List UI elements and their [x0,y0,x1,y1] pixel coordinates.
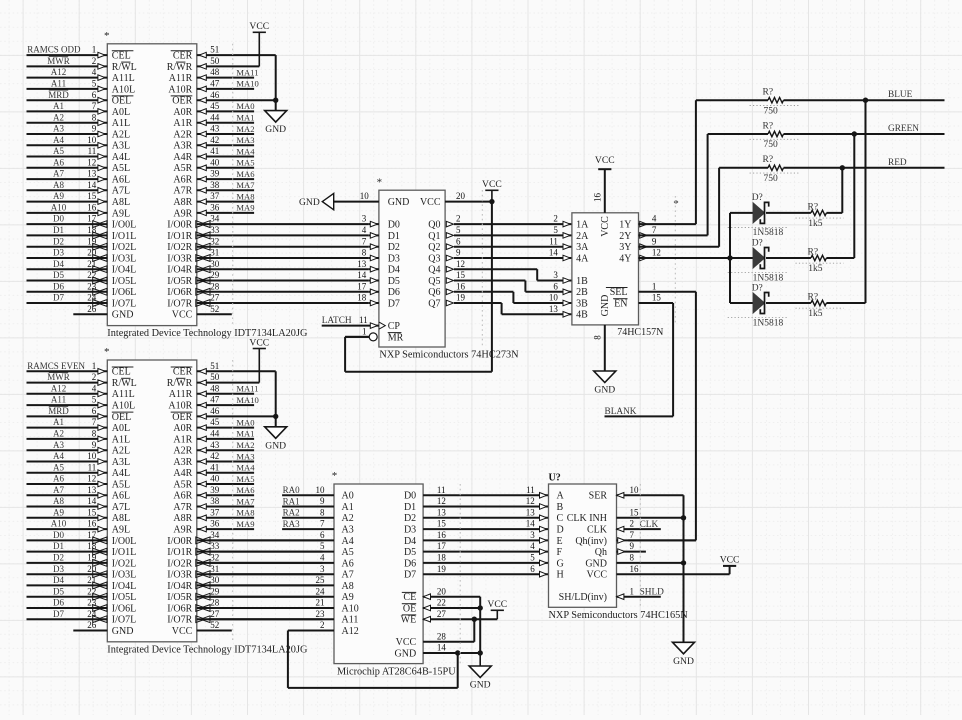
svg-text:I/O3R: I/O3R [167,253,192,264]
U-RAM1 pin 19 I/O2L / wire net D2 [27,236,137,253]
U-RAM2 pin 11 A4L / wire net A5 [27,462,131,479]
U-RAM2 ground symbol [265,427,287,452]
svg-text:*: * [332,470,338,482]
svg-text:26: 26 [87,304,97,314]
svg-text:16: 16 [593,193,603,203]
svg-text:D6: D6 [53,598,64,608]
svg-text:A8: A8 [53,496,64,506]
wire A12 to ground net [288,631,458,688]
svg-text:A8: A8 [342,581,354,592]
svg-text:A1: A1 [53,417,64,427]
U-RAM1 pin 47 A10R wire [168,79,254,96]
net label D6 [53,598,64,608]
svg-text:I/O1R: I/O1R [167,231,192,242]
svg-text:50: 50 [210,372,220,382]
U-RAM2 pin 24 I/O7L / wire net D7 [27,609,137,626]
net label D7 [53,293,64,303]
svg-text:A9R: A9R [173,525,192,536]
U-RAM1 pin 11 A4L / wire net A5 [27,146,131,163]
svg-text:28: 28 [210,598,220,608]
svg-text:VCC: VCC [600,216,611,237]
svg-text:GND: GND [395,648,417,659]
svg-text:MWR: MWR [47,56,70,66]
svg-text:A10L: A10L [112,84,135,95]
svg-text:*: * [377,177,383,189]
svg-text:I/O3L: I/O3L [112,570,136,581]
svg-text:MA11: MA11 [236,67,258,77]
74HC157N pin 4 1Y label [619,214,657,231]
U-RAM1 pin 18 I/O1L / wire net D1 [27,225,137,242]
svg-text:A11: A11 [51,79,66,89]
svg-text:I/O1L: I/O1L [112,547,136,558]
svg-text:14: 14 [437,643,447,653]
74HC157N pin 2 1A [553,214,589,231]
svg-text:D2: D2 [404,513,416,524]
U-RAM2 pin 41 A4R wire [173,462,254,479]
U-RAM2 pin 27 I/O7R wire [167,609,322,626]
U-RAM1 pin 23 I/O6L / wire net D6 [27,281,137,298]
svg-text:17: 17 [87,530,97,540]
net label MA0 [236,417,254,427]
svg-text:14: 14 [87,180,97,190]
74HC157N pin 16 VCC stem and symbol [593,155,615,213]
svg-text:11: 11 [88,146,97,156]
svg-text:F: F [557,547,563,558]
svg-text:D4: D4 [53,575,64,585]
U-RAM2 pin 39 A6R wire [173,485,254,502]
wire 74HC157N 2Y to GREEN [639,134,708,235]
svg-text:D0: D0 [404,491,416,502]
svg-text:A2R: A2R [173,446,192,457]
svg-text:Q1: Q1 [428,231,440,242]
junction WE/VCC net [472,617,477,622]
svg-text:D3: D3 [404,525,416,536]
U-RAM2 pin 6 OEL / wire net MRD [27,406,134,423]
svg-text:A10R: A10R [168,401,192,412]
U-RAM1 pin 41 A4R wire [173,146,254,163]
svg-text:39: 39 [210,169,220,179]
svg-text:34: 34 [210,530,220,540]
AT28C64B pin 7 A3 wire [282,519,354,536]
U-RAM1 pin 32 I/O2R wire [167,236,368,253]
net label MRD [48,406,69,416]
svg-text:A0R: A0R [173,423,192,434]
svg-text:RAMCS ODD: RAMCS ODD [27,45,81,55]
U-RAM2 pin 43 A2R wire [173,440,254,457]
svg-text:I/O0L: I/O0L [112,220,136,231]
svg-text:A1L: A1L [112,118,130,129]
diode D? 1N5818 #3 [728,283,787,328]
74HC165N pin 15 CLK INH label [567,507,639,524]
svg-text:11: 11 [437,485,446,495]
74HC157N pin 15 EN label [613,293,661,310]
svg-text:NXP Semiconductors 74HC165N: NXP Semiconductors 74HC165N [549,610,689,621]
svg-text:4A: 4A [576,253,589,264]
U-RAM2 pin 14 A7L / wire net A8 [27,496,131,513]
svg-text:*: * [673,198,679,210]
svg-text:I/O7L: I/O7L [112,615,136,626]
svg-text:5: 5 [320,541,325,551]
svg-text:A6: A6 [53,157,64,167]
svg-text:9: 9 [652,236,657,246]
svg-text:A11L: A11L [112,73,135,84]
net label MRD [48,90,69,100]
svg-text:A3: A3 [342,525,354,536]
svg-text:D0: D0 [53,214,64,224]
74HC273N pin 16 Q6 wire to 74HC157N [428,281,572,303]
U-RAM2 pin 17 I/O0L / wire net D0 [27,530,137,547]
svg-text:15: 15 [652,293,662,303]
74HC273N pin 1 MR wire with bubble [345,327,403,344]
net label A8 [53,496,64,506]
U-RAM2 pin 20 I/O3L / wire net D3 [27,564,137,581]
svg-text:I/O4L: I/O4L [112,265,136,276]
svg-text:17: 17 [87,214,97,224]
svg-text:10: 10 [549,293,559,303]
net label BLANK [605,407,637,417]
dotted reference column at 74HC273N [481,190,483,348]
svg-text:13: 13 [87,169,97,179]
svg-text:U?: U? [549,472,561,483]
wire RAM1 I/O0R to 74HC273N D0 [362,214,400,231]
svg-text:I/O1L: I/O1L [112,231,136,242]
svg-text:I/O2R: I/O2R [167,558,192,569]
net label MA2 [236,124,254,134]
svg-text:2B: 2B [576,287,588,298]
svg-text:SHLD: SHLD [640,588,665,598]
U-RAM2 pin 18 I/O1L / wire net D1 [27,541,137,558]
svg-text:MA7: MA7 [236,180,255,190]
U-RAM2 pin 50 R/WR wire [167,372,260,389]
svg-text:Q0: Q0 [428,220,440,231]
svg-text:MA9: MA9 [236,203,254,213]
svg-text:WE: WE [401,615,417,626]
wire diode anode bus vertical [729,213,731,303]
svg-text:6: 6 [92,90,97,100]
wire 74HC157N 4Y to diode network [639,257,731,259]
AT28C64B pin 9 A1 wire [282,496,354,513]
net label MA6 [236,485,255,495]
svg-text:24: 24 [87,609,97,619]
svg-text:2: 2 [92,372,97,382]
net label MA9 [236,203,254,213]
U-RAM2 pin 29 I/O5R wire [167,586,322,603]
U-RAM2 pin 33 I/O1R wire [167,541,322,558]
74HC273N pin 5 Q1 wire to 74HC157N [428,225,572,242]
net label MA10 [236,79,258,89]
svg-text:A10: A10 [51,519,67,529]
AT28C64B pin 28 VCC wire [396,619,475,648]
svg-text:A5: A5 [342,547,354,558]
AT28C64B pin 2 A12 wire [288,620,359,637]
U-RAM1 pin 26 GND wire [73,304,133,321]
svg-text:1N5818: 1N5818 [753,318,784,328]
U-RAM1 pin 24 I/O7L / wire net D7 [27,293,137,310]
svg-text:D1: D1 [53,225,64,235]
VCC symbol at AT28C64B WE [487,599,507,619]
svg-text:1k5: 1k5 [808,264,823,274]
net label MA9 [236,519,254,529]
svg-text:5: 5 [530,553,535,563]
net label A4 [53,451,64,461]
svg-text:MA10: MA10 [236,395,258,405]
net label LATCH [322,316,352,326]
74HC165N pin 1 SH/LD wire / net SHLD [617,588,665,600]
AT28C64B pin 10 A0 wire [282,485,354,502]
AT28C64B pin 23 A11 wire [209,609,359,626]
U-RAM2 pin 16 A9L / wire net A10 [27,519,131,536]
U-RAM1 pin 43 A2R wire [173,124,254,141]
U-RAM1 pin 40 A5R wire [173,157,254,174]
AT28C64B pin 5 A5 wire [209,541,354,558]
svg-text:A6L: A6L [112,175,130,186]
net label D7 [53,609,64,619]
svg-text:MA1: MA1 [236,113,254,123]
svg-text:D?: D? [752,238,763,248]
dual-port RAM U-RAM1 IDT7134LA20JG body [104,30,308,339]
svg-text:36: 36 [210,519,220,529]
svg-text:R?: R? [763,155,774,165]
U-RAM2 VCC symbol feeding pin 50 [249,337,269,382]
svg-text:VCC: VCC [586,570,607,581]
74HC157N pin 5 2A [553,225,589,242]
svg-text:GND: GND [112,310,134,321]
svg-text:3B: 3B [576,298,588,309]
U-RAM1 pin 48 A11R wire [169,67,254,84]
74HC165N pin 10 SER wire to ground net [617,493,684,643]
svg-text:45: 45 [210,417,220,427]
svg-text:RAMCS EVEN: RAMCS EVEN [27,361,85,371]
U-RAM1 pin 20 I/O3L / wire net D3 [27,248,137,265]
U-RAM1 pin 21 I/O4L / wire net D4 [27,259,137,276]
svg-text:52: 52 [210,304,219,314]
svg-text:39: 39 [210,485,220,495]
svg-text:4B: 4B [576,310,588,321]
svg-text:A7R: A7R [173,502,192,513]
U-RAM1 pin 5 A10L / wire net A11 [27,79,136,96]
wire RAM1 I/O2R to 74HC273N D2 [362,236,400,253]
svg-text:9: 9 [630,541,635,551]
svg-text:29: 29 [210,270,220,280]
net label MA1 [236,429,254,439]
74HC157N pin 12 4Y label [619,248,661,265]
svg-text:12: 12 [87,474,96,484]
U-RAM1 pin 45 A0R wire [173,101,254,118]
svg-text:MA3: MA3 [236,451,254,461]
svg-text:74HC157N: 74HC157N [617,327,663,338]
net label MA6 [236,169,255,179]
svg-text:23: 23 [87,281,97,291]
svg-text:31: 31 [210,564,219,574]
svg-text:A2: A2 [342,513,354,524]
svg-text:I/O2R: I/O2R [167,242,192,253]
svg-text:17: 17 [437,541,447,551]
74HC273N label GND pin10 [388,197,441,208]
svg-text:MRD: MRD [48,406,69,416]
svg-text:MA8: MA8 [236,191,254,201]
svg-text:30: 30 [210,259,220,269]
svg-text:7: 7 [320,519,325,529]
U-RAM2 pin 42 A3R wire [173,451,254,468]
dotted reference column at 74HC157N [674,196,676,325]
svg-text:44: 44 [210,429,220,439]
svg-text:17: 17 [357,281,367,291]
AT28C64B pin 20 CE wire to GND net [402,586,480,603]
U-RAM2 dotted reference column [232,360,234,642]
svg-text:28: 28 [437,631,447,641]
net label A1 [53,101,64,111]
svg-text:32: 32 [210,236,219,246]
net label MA3 [236,451,254,461]
resistor R? 1k5 #3 [766,100,866,319]
resistor R? 750 on BLUE line [696,88,945,117]
74HC165N pin 13 C [526,507,564,524]
U-RAM2 pin 13 A6L / wire net A7 [27,485,131,502]
U-RAM2 pin 5 A10L / wire net A11 [27,395,136,412]
svg-text:24: 24 [87,293,97,303]
svg-text:MA9: MA9 [236,519,254,529]
svg-text:9: 9 [320,496,325,506]
svg-text:48: 48 [210,383,220,393]
svg-text:*: * [104,30,110,42]
wire RAM1 I/O3R to 74HC273N D3 [362,248,400,265]
svg-text:D?: D? [752,193,763,203]
svg-text:A4R: A4R [173,152,192,163]
svg-text:I/O3L: I/O3L [112,253,136,264]
svg-text:LATCH: LATCH [322,316,352,326]
svg-text:48: 48 [210,67,220,77]
svg-text:C: C [557,513,564,524]
U-RAM1 pin 46 OER wire [171,90,276,107]
svg-text:22: 22 [437,598,446,608]
74HC157N pin 8 GND stem and ground symbol [593,325,616,396]
svg-text:A6R: A6R [173,175,192,186]
svg-text:A9: A9 [53,507,64,517]
U-RAM2 pin 7 A0L / wire net A1 [27,417,131,434]
svg-text:RA0: RA0 [283,485,301,495]
U-RAM2 pin 10 A3L / wire net A4 [27,451,131,468]
svg-text:CE: CE [403,592,416,603]
74HC165N pin 8 GND label [585,553,634,570]
AT28C64B pin 4 A6 wire [209,553,354,570]
svg-text:43: 43 [210,440,220,450]
svg-text:41: 41 [210,146,219,156]
ground symbol at AT28C64B [469,653,491,691]
svg-text:D5: D5 [404,547,416,558]
U-RAM1 pin 33 I/O1R wire [167,225,368,242]
U-RAM2 pin 32 I/O2R wire [167,553,322,570]
svg-text:11: 11 [359,315,368,325]
svg-text:R/WL: R/WL [112,378,137,389]
net label A5 [53,146,64,156]
U-RAM2 pin 44 A1R wire [173,429,254,446]
U-RAM1 pin 22 I/O5L / wire net D5 [27,270,137,287]
svg-text:16: 16 [87,203,97,213]
U-RAM2 pin 37 A8R wire [173,507,254,524]
74HC165N pin 15 CLK INH wire [617,517,684,519]
svg-text:A7: A7 [53,169,64,179]
svg-text:1: 1 [92,361,97,371]
U-RAM1 ground symbol [265,111,287,136]
U-RAM1 wire pin51 to GND vertical [275,55,277,111]
svg-text:A10: A10 [51,203,67,213]
wire RAM1 I/O6R to 74HC273N D6 [357,281,400,298]
svg-text:43: 43 [210,124,220,134]
svg-text:47: 47 [210,79,220,89]
svg-text:16: 16 [437,530,447,540]
net label A7 [53,169,64,179]
U-RAM2 pin 48 A11R wire [169,383,254,400]
svg-text:A0R: A0R [173,107,192,118]
svg-text:OE: OE [403,603,416,614]
net label MA0 [236,101,254,111]
svg-text:A0: A0 [342,491,354,502]
net label A3 [53,440,64,450]
svg-text:4: 4 [92,67,97,77]
74HC165N pin 7 Qh(inv) label [575,530,634,547]
AT28C64B pin 27 WE wire to VCC [401,609,498,626]
U-RAM1 pin 10 A3L / wire net A4 [27,135,131,152]
svg-text:19: 19 [87,236,97,246]
net label D0 [53,530,64,540]
svg-text:1: 1 [630,586,635,596]
svg-text:VCC: VCC [595,155,615,166]
74HC273N pin 9 Q3 wire to 74HC157N [428,248,572,265]
svg-text:38: 38 [210,180,220,190]
U-RAM1 pin 52 VCC wire [172,304,232,321]
svg-text:6: 6 [553,281,558,291]
74HC157N pin 6 2B [553,281,588,298]
net label RA0 [283,485,301,495]
svg-text:CER: CER [173,367,193,378]
svg-text:19: 19 [87,553,97,563]
svg-text:R?: R? [808,248,819,258]
U-RAM2 junction at pin46/GND net [273,414,278,419]
svg-text:37: 37 [210,191,220,201]
svg-text:Integrated Device Technology I: Integrated Device Technology IDT7134LA20… [107,328,308,339]
svg-text:11: 11 [88,462,97,472]
IC 74HC273N body [377,177,520,361]
svg-text:GREEN: GREEN [888,124,919,134]
svg-text:D2: D2 [53,236,64,246]
svg-text:A1: A1 [53,101,64,111]
svg-text:A10R: A10R [168,84,192,95]
svg-text:A2L: A2L [112,129,130,140]
U-RAM1 pin 29 I/O5R wire [167,270,368,287]
svg-text:A9: A9 [53,191,64,201]
svg-text:9: 9 [92,124,97,134]
U-RAM2 pin 30 I/O4R wire [167,575,322,592]
U-RAM1 pin 50 R/WR wire [167,56,260,73]
74HC165N pin 5 G [530,553,563,570]
svg-text:29: 29 [210,586,220,596]
U-RAM2 pin 1 CEL / wire net RAMCS_EVEN [27,361,134,378]
net label MA11 [236,67,258,77]
svg-text:A9L: A9L [112,525,130,536]
svg-text:CEL: CEL [112,367,131,378]
svg-text:13: 13 [87,485,97,495]
svg-text:10: 10 [87,451,97,461]
svg-text:A5L: A5L [112,479,130,490]
U-RAM2 wire pin51 to GND vertical [275,371,277,427]
svg-text:MA2: MA2 [236,440,254,450]
net label A2 [53,429,64,439]
svg-text:13: 13 [526,507,536,517]
svg-text:OEL: OEL [112,96,131,107]
svg-text:A4R: A4R [173,468,192,479]
svg-text:5: 5 [553,225,558,235]
svg-text:CLK INH: CLK INH [567,513,607,524]
